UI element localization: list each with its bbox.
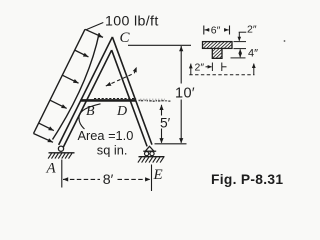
dimension 10 ft (apex level to base, right side) bbox=[128, 45, 195, 143]
node label B bbox=[86, 104, 95, 119]
svg-text:6″: 6″ bbox=[211, 25, 221, 37]
pin support at A (hinge circle and ground) bbox=[48, 146, 74, 159]
speck artifact bbox=[284, 40, 286, 42]
svg-text:5′: 5′ bbox=[160, 115, 171, 130]
cross-section detail: T-section stem (hatched) bbox=[202, 48, 233, 58]
member BD (horizontal bar) bbox=[80, 99, 136, 101]
leader line from 100 lb/ft label to load strip bbox=[86, 23, 103, 30]
svg-text:A: A bbox=[46, 161, 57, 177]
svg-text:D: D bbox=[116, 104, 127, 119]
svg-text:2″: 2″ bbox=[195, 62, 205, 74]
node label C bbox=[120, 30, 131, 46]
member AC (left leg of A-frame, double line) bbox=[59, 37, 113, 147]
extension lines from flange top/bottom and stem bottom bbox=[231, 42, 247, 58]
svg-text:sq in.: sq in. bbox=[97, 143, 128, 158]
dimension 5 ft (BD level to base) bbox=[159, 105, 170, 144]
svg-text:C: C bbox=[120, 30, 131, 46]
svg-text:Area =1.0: Area =1.0 bbox=[78, 128, 134, 143]
load value label 100 lb/ft bbox=[105, 13, 159, 29]
node label A bbox=[46, 161, 57, 177]
node label E bbox=[153, 167, 163, 183]
dimension baseline at support level (right of E) bbox=[155, 143, 187, 145]
caption Fig. P-8.31 bbox=[211, 172, 283, 187]
roller support at E (rollers and ground) bbox=[138, 146, 165, 162]
dimension 4" (stem depth) bbox=[238, 48, 258, 60]
svg-text:Fig. P-8.31: Fig. P-8.31 bbox=[211, 172, 283, 187]
cross-section detail: T-section flange (hatched) bbox=[197, 42, 239, 49]
dimension 6" (flange width) bbox=[204, 25, 230, 37]
svg-text:100 lb/ft: 100 lb/ft bbox=[105, 13, 159, 29]
node label D bbox=[116, 104, 127, 119]
svg-text:2″: 2″ bbox=[247, 24, 257, 36]
svg-text:4″: 4″ bbox=[248, 48, 258, 60]
dimension 8 ft (between supports A and E) bbox=[62, 160, 152, 192]
svg-text:8′: 8′ bbox=[103, 172, 114, 188]
distributed load 100 lb/ft (load strip with arrows on member AC) bbox=[34, 29, 104, 142]
member EC (right leg of A-frame, double line) bbox=[112, 37, 152, 146]
label Area = 1.0 sq in. with leader to member BD bbox=[78, 104, 134, 158]
dimension 2" (stem width) and dashed reference line bbox=[189, 62, 256, 75]
svg-text:10′: 10′ bbox=[175, 85, 195, 101]
dimension 2" (flange thickness) bbox=[238, 24, 257, 42]
extension line at BD level (faint smudge, right of D) bbox=[139, 99, 171, 101]
section cut indicator through member EC bbox=[106, 67, 137, 86]
svg-text:E: E bbox=[153, 167, 163, 183]
